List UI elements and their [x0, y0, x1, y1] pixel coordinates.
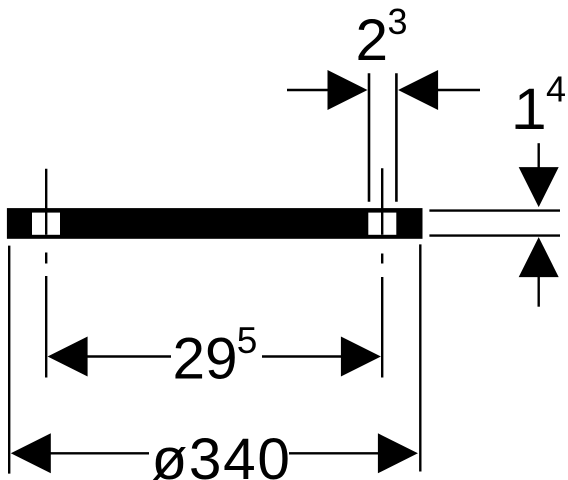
dimension diameter 340: left extension line [8, 246, 10, 474]
dimension 1-4: down arrow (points to plate top) [519, 167, 559, 207]
svg-text:4: 4 [546, 69, 566, 110]
right hole (white cutout) [368, 213, 396, 235]
dimension 1-4: lower tail line [538, 276, 540, 307]
label 1 (value 1) [514, 77, 547, 142]
dimension 29-5: left tail line [87, 355, 171, 357]
left hole center line (short dash below plate) [45, 253, 47, 264]
dimension 2-3: right tail line [437, 89, 480, 91]
dimension 1-4: upper tail line [538, 143, 540, 169]
left hole (white cutout) [32, 213, 60, 235]
dimension 2-3: left arrow (points right) [328, 70, 368, 110]
right hole center line (short dash below plate) [381, 254, 383, 264]
dimension diameter 340: left tail line [50, 452, 149, 454]
svg-text:2: 2 [356, 8, 389, 73]
right hole center line (long segment to dimension line) [381, 277, 383, 378]
dimension 2-3: left extension line [368, 73, 371, 201]
svg-text:3: 3 [388, 1, 408, 42]
dimension diameter 340: right extension line [419, 244, 421, 471]
plate cross-section (black bar) [7, 208, 423, 239]
dimension diameter 340: left arrow (points left) [11, 433, 51, 473]
dimension 29-5: right tail line [262, 355, 342, 357]
label 29 superscript 5 [237, 320, 258, 361]
dimension 29-5: left arrow (points left at hole axis) [48, 337, 88, 377]
dimension diameter 340: right tail line [289, 452, 379, 454]
dimension 1-4: bottom extension line (plate bottom edge) [429, 234, 560, 236]
label 2 (value 2) [356, 8, 389, 73]
dimension 1-4: up arrow (points to plate bottom) [519, 237, 559, 277]
right hole center line (upper solid segment) [381, 168, 383, 235]
left hole center line (upper solid segment) [45, 169, 47, 235]
dimension diameter 340: right arrow (points right) [378, 433, 418, 473]
dimension 2-3: right arrow (points left) [398, 70, 438, 110]
label 2 superscript 3 [388, 1, 408, 42]
label 29 (value 29) [173, 326, 238, 391]
dimension 2-3: left tail line [287, 89, 329, 91]
svg-text:5: 5 [237, 320, 258, 361]
dimension 1-4: top extension line (plate top edge) [429, 209, 560, 211]
dimension 2-3: right extension line [395, 73, 398, 201]
svg-text:29: 29 [173, 326, 238, 391]
dimension 29-5: right arrow (points right at hole axis) [341, 337, 381, 377]
label 1 superscript 4 [546, 69, 566, 110]
left hole center line (long segment to dimension line) [45, 276, 47, 378]
label diameter 340 [152, 427, 292, 480]
svg-text:ø340: ø340 [152, 427, 292, 480]
svg-text:1: 1 [514, 77, 547, 142]
